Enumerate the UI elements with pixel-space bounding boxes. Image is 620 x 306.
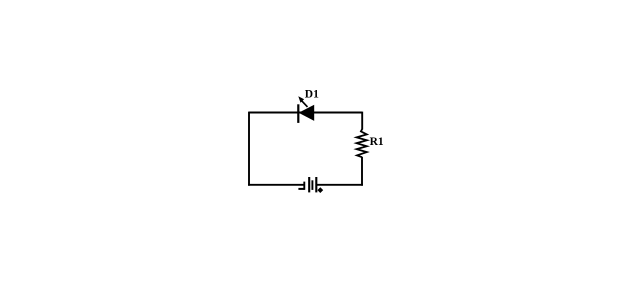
resistor R1	[357, 129, 367, 157]
wire bottom-right	[316, 184, 363, 186]
wire top	[249, 112, 362, 114]
svg-text:R1: R1	[370, 136, 384, 148]
LED D1	[298, 96, 314, 123]
battery B1	[304, 177, 316, 192]
wire left	[248, 112, 250, 186]
wire right-top	[361, 112, 363, 130]
battery minus marker	[298, 188, 304, 190]
wire right-bottom	[361, 157, 363, 186]
svg-text:D1: D1	[305, 89, 319, 101]
wire bottom-left	[248, 184, 304, 186]
battery plus marker	[317, 187, 323, 193]
